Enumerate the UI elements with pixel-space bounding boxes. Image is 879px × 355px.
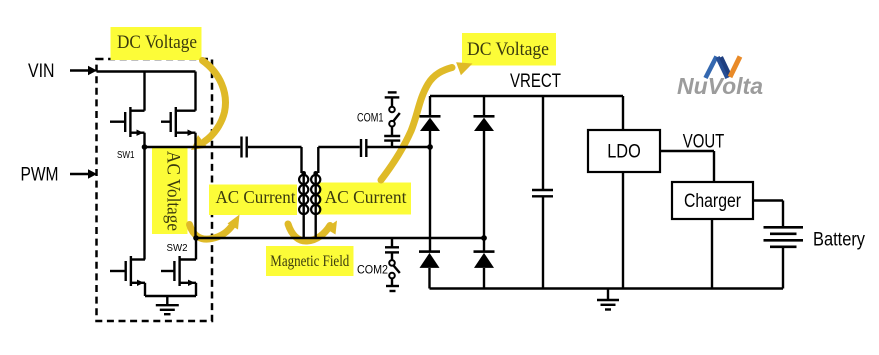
svg-text:VOUT: VOUT [683, 132, 725, 153]
svg-text:VRECT: VRECT [510, 71, 561, 92]
svg-text:DC Voltage: DC Voltage [467, 39, 549, 60]
svg-text:AC Current: AC Current [216, 187, 296, 207]
svg-text:SW1: SW1 [117, 150, 135, 161]
svg-text:PWM: PWM [21, 165, 59, 186]
svg-text:VIN: VIN [28, 61, 55, 82]
svg-text:COM1: COM1 [357, 111, 384, 125]
svg-text:LDO: LDO [607, 142, 641, 163]
svg-text:COM2: COM2 [357, 263, 388, 277]
svg-text:SW2: SW2 [167, 243, 188, 254]
svg-text:Charger: Charger [684, 191, 742, 212]
svg-text:Battery: Battery [813, 230, 865, 251]
svg-text:AC Voltage: AC Voltage [163, 151, 184, 231]
svg-text:NuVolta: NuVolta [677, 73, 763, 99]
svg-text:AC Current: AC Current [325, 187, 407, 207]
svg-text:Magnetic Field: Magnetic Field [270, 253, 349, 270]
svg-text:DC Voltage: DC Voltage [117, 32, 197, 53]
